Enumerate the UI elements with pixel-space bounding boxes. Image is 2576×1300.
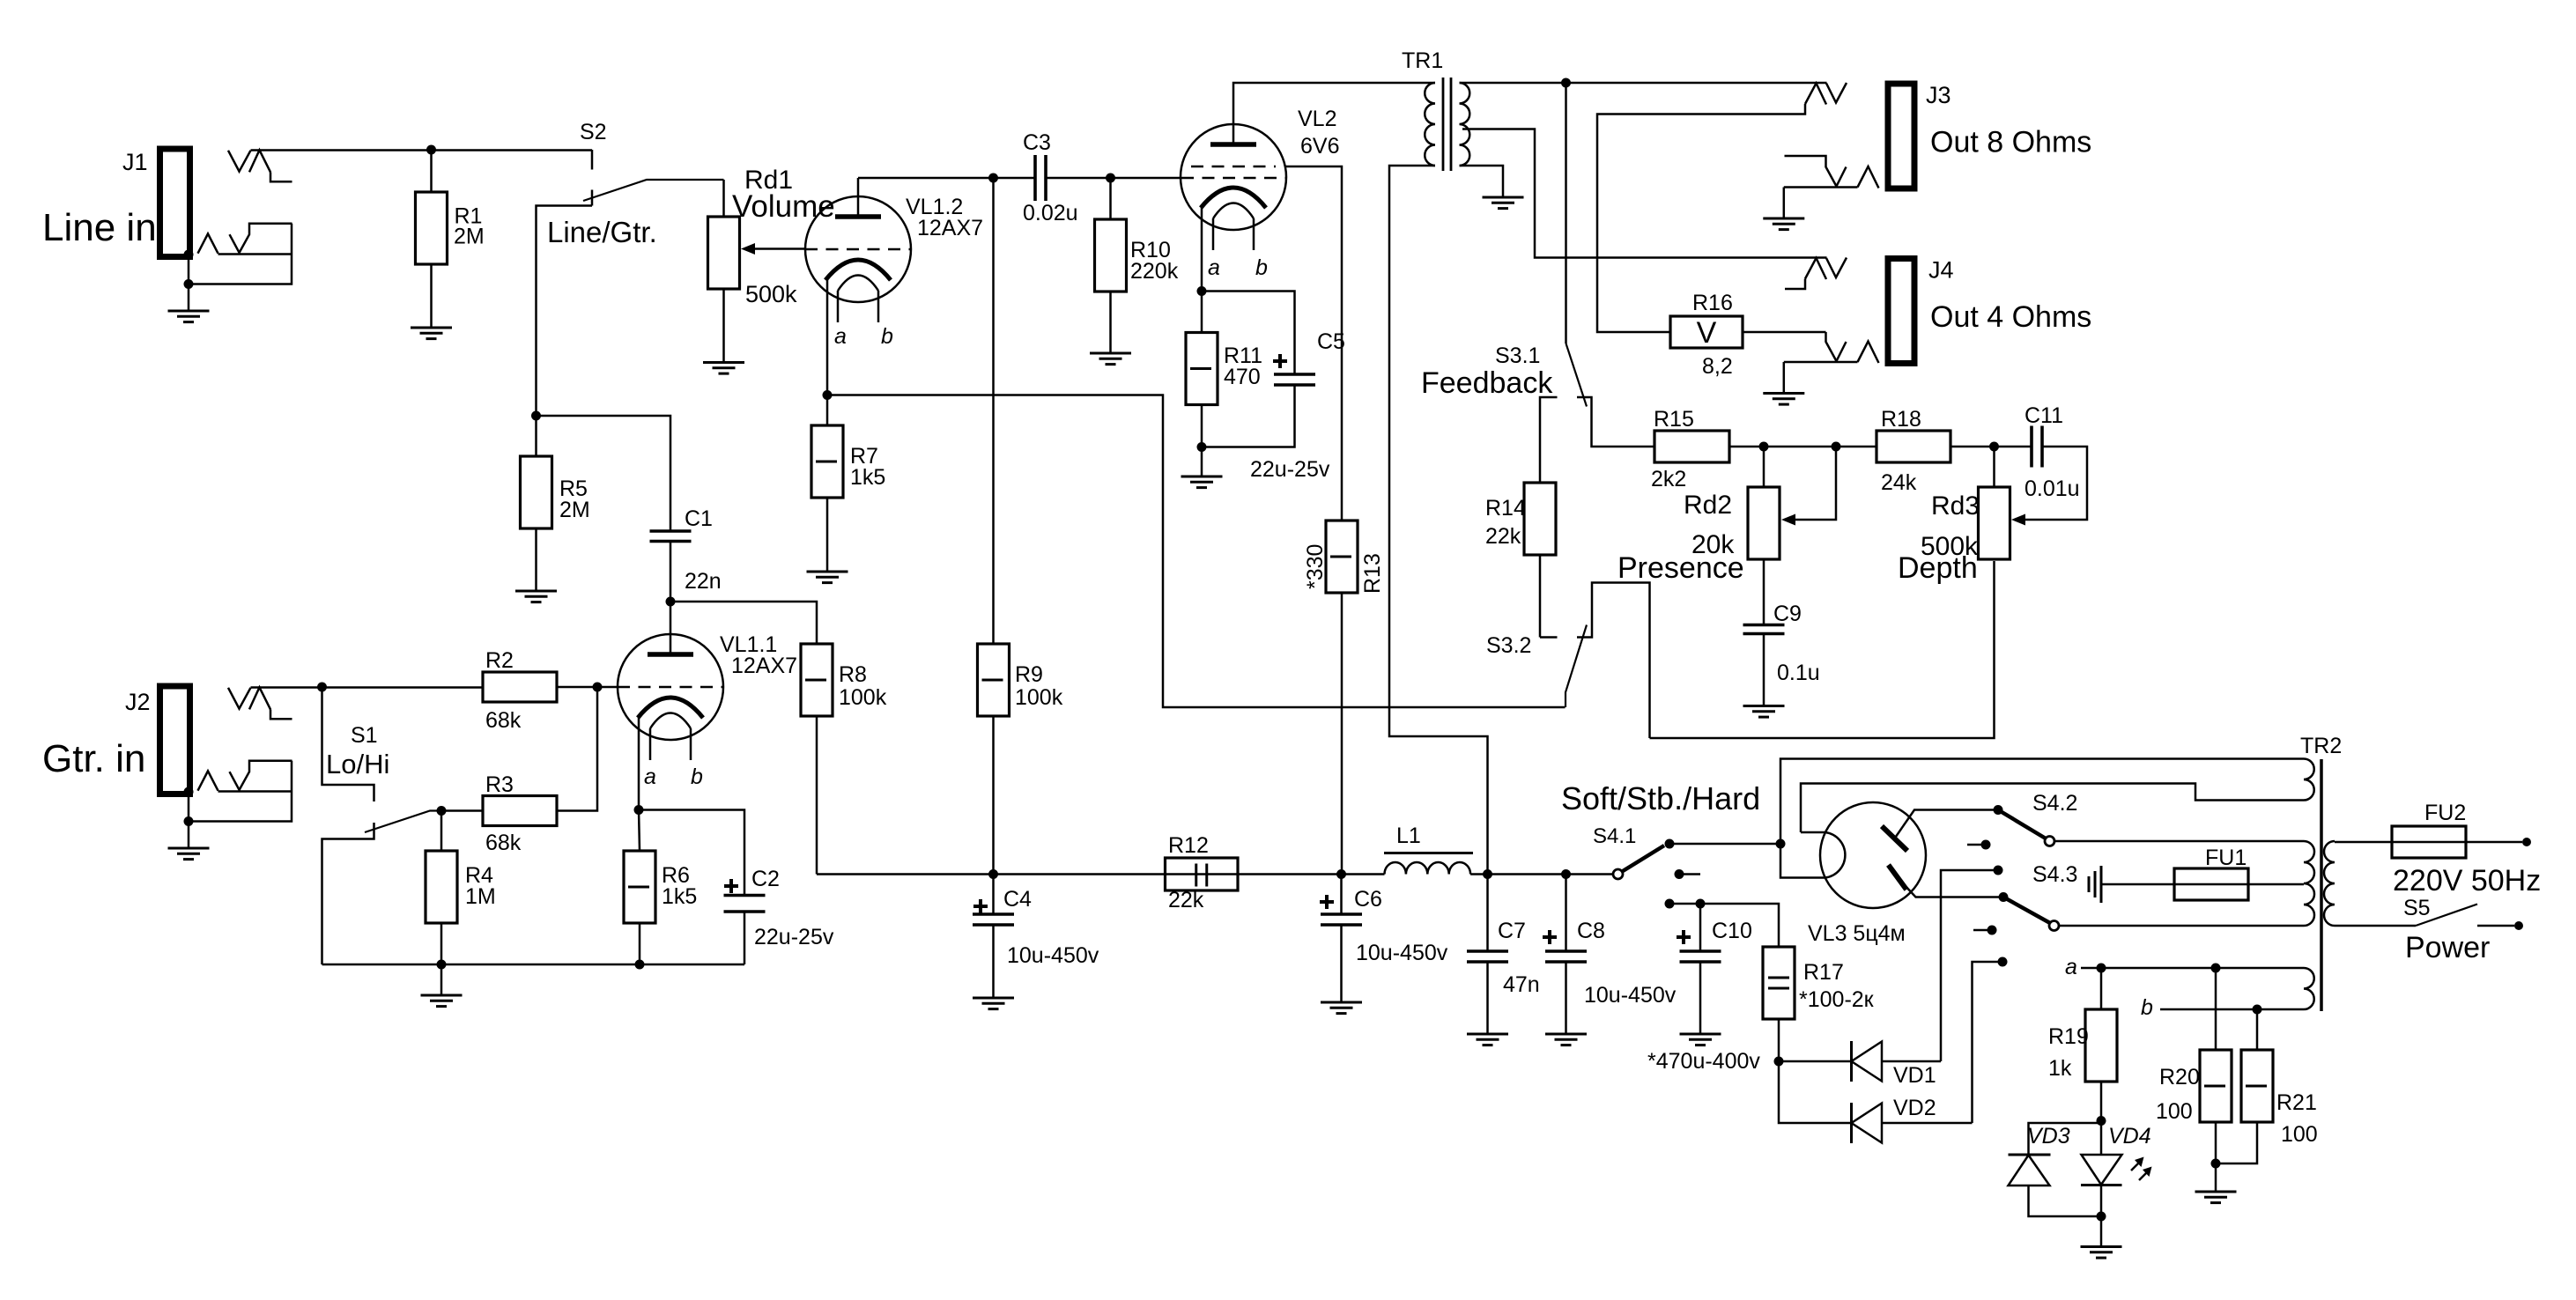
wire R12 to C6 node xyxy=(1238,873,1385,875)
svg-text:C6: C6 xyxy=(1354,887,1382,912)
wire R5 top stem xyxy=(535,416,537,456)
svg-text:1M: 1M xyxy=(465,884,496,909)
junction R4/ground bus xyxy=(437,960,447,970)
switch S2 arm xyxy=(583,180,724,201)
capacitor C4 xyxy=(973,914,1014,925)
svg-text:10u-450v: 10u-450v xyxy=(1356,941,1448,965)
J1 normalling return wire xyxy=(190,224,292,284)
svg-text:R17: R17 xyxy=(1803,960,1844,985)
resistor R8 xyxy=(801,644,833,716)
wire S3.2 to Rd3 bottom (depth return) xyxy=(1650,561,1995,738)
tube VL1.1 cathode xyxy=(638,698,703,718)
switch S1 upper contact xyxy=(322,687,374,801)
connector J4 (Out 4 Ohms jack) xyxy=(1888,259,1914,364)
wire J1 tip to R1/S2 node xyxy=(251,149,593,151)
svg-text:R8: R8 xyxy=(839,662,867,687)
tube VL2 anode (plate) xyxy=(1210,142,1256,147)
junction J1 tip node / R1 xyxy=(426,145,436,155)
switch S3.1 arm xyxy=(1566,343,1588,407)
tube VL1.2 grid xyxy=(805,248,911,251)
polarity + of C10 xyxy=(1677,930,1691,944)
switch S5 arm xyxy=(2416,905,2477,927)
junction C8 node xyxy=(1561,869,1571,879)
resistor R3 xyxy=(483,796,557,826)
resistor R2 xyxy=(483,672,557,702)
capacitor C8 xyxy=(1545,951,1587,962)
ground at C4 xyxy=(973,998,1014,1009)
wire VL2 cathode lead xyxy=(1201,206,1203,292)
svg-text:100k: 100k xyxy=(839,685,887,710)
svg-text:VD1: VD1 xyxy=(1893,1063,1936,1088)
J4 sleeve wire xyxy=(1784,361,1858,364)
J2 normalling return wire xyxy=(190,761,292,822)
wire C7 bottom to ground xyxy=(1486,962,1489,1034)
J1 sleeve wire xyxy=(218,253,292,255)
switch S4.2 standby stub xyxy=(1967,844,1981,846)
tube VL1.2 anode (plate) xyxy=(835,214,881,219)
ground at R10 xyxy=(1090,353,1131,365)
wire feedback return from VL1.2 cathode xyxy=(827,395,1566,708)
tube VL2 heater pin b xyxy=(1253,218,1255,250)
svg-text:a: a xyxy=(2065,955,2077,979)
wire R1 bottom stem xyxy=(430,264,433,328)
wire C1 bottom to VL1.1 plate node xyxy=(670,542,672,602)
svg-text:12AX7: 12AX7 xyxy=(731,654,797,678)
wire S4.3 pivot to TR2 HV bottom xyxy=(2059,925,2304,927)
J4 tip fixed contact xyxy=(1826,258,1847,278)
tube VL2 heater pin a xyxy=(1212,218,1215,250)
wire cathode ground bus xyxy=(322,964,745,966)
svg-text:VL3 5ц4м: VL3 5ц4м xyxy=(1808,921,1906,946)
capacitor C1 xyxy=(650,531,692,542)
switch S3.2 arm xyxy=(1566,625,1587,708)
svg-text:1k5: 1k5 xyxy=(662,884,697,909)
svg-text:Depth: Depth xyxy=(1898,551,1978,585)
switch S2 upper contact stub xyxy=(591,150,594,170)
wire R17 bottom xyxy=(1778,1019,1780,1061)
svg-text:22n: 22n xyxy=(685,569,722,594)
svg-text:C2: C2 xyxy=(751,867,780,891)
terminal mains line xyxy=(2522,838,2531,846)
transformer TR1 secondary winding xyxy=(1460,83,1470,166)
svg-text:C5: C5 xyxy=(1317,329,1345,354)
capacitor C10 xyxy=(1680,951,1721,962)
resistor R19 xyxy=(2085,1009,2117,1082)
diode VD2 xyxy=(1852,1103,1883,1143)
svg-text:Power: Power xyxy=(2405,931,2490,964)
wire S4.1 hard throw to R17 xyxy=(1669,904,1779,947)
wire S4.2 hard throw to VD1 xyxy=(1941,870,1998,1061)
junction VL1.2 plate / R9 / C3 xyxy=(988,174,998,183)
junction node b / R21 xyxy=(2253,1005,2262,1015)
svg-text:Rd3: Rd3 xyxy=(1931,491,1980,521)
capacitor C2 xyxy=(724,896,766,912)
junction S4.3 hard throw xyxy=(1998,957,2008,967)
wire R10 top stem xyxy=(1109,178,1112,219)
svg-text:Rd2: Rd2 xyxy=(1684,491,1732,520)
switch S2 lower rail xyxy=(537,206,593,417)
ground at R1 xyxy=(411,328,452,339)
J3 sleeve wire xyxy=(1784,186,1858,188)
transformer TR1 core xyxy=(1442,78,1445,171)
wire Rd1 wiper to VL1.2 grid xyxy=(755,247,805,250)
svg-text:500k: 500k xyxy=(745,281,797,307)
polarity + of C2 xyxy=(724,879,738,893)
wire VL1.1 plate stem xyxy=(670,602,672,654)
wire R6 top stem xyxy=(639,810,640,852)
svg-text:S5: S5 xyxy=(2403,896,2431,920)
tube VL1.2 envelope xyxy=(805,196,911,302)
wire C8 top stem xyxy=(1565,875,1567,952)
tube VL3 anode 2 xyxy=(1889,865,1907,890)
svg-text:2k2: 2k2 xyxy=(1651,467,1686,491)
J3 tip fixed contact xyxy=(1826,83,1847,103)
wire VD2 to S4.3 xyxy=(1882,1122,1973,1125)
wire chassis to FU1 to TR2 HV center tap xyxy=(2101,883,2304,886)
junction S4.2 hard throw xyxy=(1994,866,2003,875)
wire C6 top stem xyxy=(1340,875,1343,915)
J2 tip contact tail stub xyxy=(270,709,292,719)
wire S5 to mains terminal xyxy=(2477,925,2514,927)
svg-text:22u-25v: 22u-25v xyxy=(1250,457,1330,482)
J1 ring contact wire xyxy=(240,224,292,253)
switch S3.2 left throw stub xyxy=(1540,636,1558,639)
wire Rd1 bottom stem xyxy=(722,289,725,363)
svg-text:*330: *330 xyxy=(1303,544,1328,589)
wire R11 top stem xyxy=(1201,292,1203,333)
wire R6 bottom stem xyxy=(639,923,641,964)
svg-text:470: 470 xyxy=(1224,365,1261,389)
J1 tip spring contact xyxy=(249,150,270,172)
svg-text:Line/Gtr.: Line/Gtr. xyxy=(547,216,657,248)
resistor R13 xyxy=(1326,521,1358,593)
junction node a / R20 xyxy=(2211,964,2221,973)
transformer TR2 primary winding xyxy=(2324,841,2335,926)
svg-text:Feedback: Feedback xyxy=(1421,366,1553,400)
J1 tip contact tail stub xyxy=(270,172,292,181)
potentiometer Rd2 xyxy=(1748,487,1780,559)
svg-text:FU1: FU1 xyxy=(2205,846,2247,870)
J3 tip switching contact xyxy=(1805,84,1826,105)
J2 tip spring contact xyxy=(249,687,270,709)
tube VL1.2 heater pin b xyxy=(877,291,880,322)
ground at VD3/VD4 xyxy=(2081,1247,2122,1259)
fuse FU1 xyxy=(2174,868,2248,900)
svg-text:a: a xyxy=(834,324,847,349)
wire S4.1 to VL3 node xyxy=(1669,843,1780,846)
wire C4 top stem xyxy=(992,875,995,915)
junction TR1 secondary / feedback takeoff xyxy=(1561,78,1571,88)
capacitor C5 xyxy=(1274,374,1315,385)
wire TR1 secondary top to J3 xyxy=(1460,82,1827,85)
svg-text:Out 4 Ohms: Out 4 Ohms xyxy=(1930,300,2091,334)
junction S4.3 soft throw xyxy=(1999,892,2009,902)
wire TR1 secondary bottom to ground xyxy=(1460,166,1504,197)
wire FU2 to mains terminal xyxy=(2466,841,2522,844)
ground at C6 xyxy=(1321,1002,1362,1014)
switch S3.1 right throw to R15 xyxy=(1577,397,1654,447)
transformer TR2 5V winding xyxy=(2304,759,2314,801)
svg-text:b: b xyxy=(881,324,893,349)
svg-text:TR1: TR1 xyxy=(1402,48,1443,73)
ground at C8 xyxy=(1545,1034,1587,1045)
wire VL1.1 cathode lead xyxy=(638,716,640,810)
wire VL3 anode 1 lead xyxy=(1895,810,1999,839)
svg-text:VD4: VD4 xyxy=(2108,1124,2151,1149)
tube VL1.1 heater xyxy=(650,713,691,729)
wire C7 top stem xyxy=(1486,875,1489,952)
wire TR2 primary bottom to S5 xyxy=(2335,925,2416,927)
wire node to VD2 xyxy=(1779,1061,1850,1123)
wire R10 bottom stem xyxy=(1109,292,1112,353)
transformer TR1 primary winding xyxy=(1425,83,1435,166)
switch S4.3 standby stub xyxy=(1973,929,1988,932)
diode VD4 (LED) xyxy=(2081,1155,2122,1186)
J2 ring contact wire xyxy=(240,761,292,790)
capacitor C6 xyxy=(1321,914,1362,925)
resistor R20 xyxy=(2200,1050,2232,1122)
svg-text:R2: R2 xyxy=(485,648,514,673)
wire VD3 bottom xyxy=(2029,1186,2102,1216)
svg-text:VD3: VD3 xyxy=(2027,1124,2070,1149)
switch S4.3 pivot xyxy=(2049,921,2059,931)
svg-text:C9: C9 xyxy=(1773,602,1802,626)
svg-text:S3.2: S3.2 xyxy=(1486,633,1531,658)
wire R5 bottom stem xyxy=(535,528,537,591)
wire R13 bottom to B+ rail xyxy=(1341,593,1344,875)
switch S2 lower contact stub xyxy=(591,190,594,206)
svg-text:100: 100 xyxy=(2156,1099,2193,1124)
wire R18 to C11 xyxy=(1951,446,2032,448)
wire through FU2 xyxy=(2392,841,2466,844)
tube VL3 envelope xyxy=(1820,802,1926,908)
ground at C10 xyxy=(1680,1034,1721,1045)
svg-text:Soft/Stb./Hard: Soft/Stb./Hard xyxy=(1561,780,1760,816)
tube VL2 heater xyxy=(1213,203,1254,219)
wire node to C1 xyxy=(537,416,671,531)
polarity + of C5 xyxy=(1273,354,1287,368)
inductor L1 xyxy=(1385,862,1471,875)
svg-text:68k: 68k xyxy=(485,708,522,733)
tube VL2 cathode xyxy=(1201,188,1266,208)
junction J1 return/ground xyxy=(184,279,194,289)
wire VL2 plate stem to TR1 xyxy=(1233,83,1435,144)
ground at input bus xyxy=(421,995,463,1007)
wire J3 sleeve to ground xyxy=(1783,188,1786,219)
wire R9 bottom to B+ rail xyxy=(992,716,995,875)
wire to ground xyxy=(2100,1216,2103,1247)
junction VL2 cathode / R11 / C5 xyxy=(1197,286,1207,296)
wire R15 to R18 xyxy=(1729,446,1876,448)
J1 sleeve terminal wire to ground xyxy=(188,257,190,312)
J3 ring contact arm xyxy=(1837,167,1847,187)
svg-text:24k: 24k xyxy=(1881,470,1917,495)
svg-text:R14: R14 xyxy=(1485,496,1526,521)
svg-text:C1: C1 xyxy=(685,506,713,531)
resistor R10 xyxy=(1095,219,1127,292)
wire R2 to VL1.1 grid xyxy=(557,686,618,689)
svg-text:S1: S1 xyxy=(351,723,378,748)
transformer TR2 HV winding xyxy=(2304,841,2314,926)
junction VL3 filament node xyxy=(1776,839,1786,849)
svg-text:12AX7: 12AX7 xyxy=(917,216,983,240)
svg-text:Lo/Hi: Lo/Hi xyxy=(326,749,389,779)
switch S3.1 left throw to R14 xyxy=(1540,397,1558,483)
wire R19 top stem xyxy=(2100,968,2103,1009)
wire R4 top stem xyxy=(440,811,443,852)
wire C10 bottom to ground xyxy=(1699,962,1702,1034)
J3 ring contact wire xyxy=(1785,156,1837,187)
wire node to VD3 xyxy=(2029,1121,2102,1156)
wire VL1.2 cathode lead xyxy=(826,278,829,395)
ground at J2 xyxy=(168,848,210,860)
wire R7 top stem xyxy=(826,395,829,426)
wire L1 to C7 node xyxy=(1470,873,1566,875)
junction S4.2 soft throw xyxy=(1994,805,2003,815)
Rd2 wiper arrow xyxy=(1781,514,1795,526)
svg-text:R9: R9 xyxy=(1015,662,1043,687)
resistor R17 power marks xyxy=(1768,977,1789,979)
capacitor C7 xyxy=(1467,951,1508,962)
svg-text:1k: 1k xyxy=(2048,1056,2072,1081)
junction S2/R5/C1 node xyxy=(531,411,541,421)
svg-text:R12: R12 xyxy=(1168,833,1209,858)
junction R6/C2 bottom xyxy=(635,960,645,970)
ground at C7 xyxy=(1467,1034,1508,1045)
junction B+ rail / C4 xyxy=(988,869,998,879)
wire J4 sleeve to ground xyxy=(1783,362,1786,394)
svg-text:Out 8 Ohms: Out 8 Ohms xyxy=(1930,126,2091,159)
tube VL1.2 heater xyxy=(838,276,878,292)
switch S4.1 pivot xyxy=(1613,869,1623,879)
ground at Rd1 xyxy=(703,363,744,374)
tube VL1.1 grid xyxy=(618,686,723,689)
wire C2 bottom xyxy=(744,912,746,964)
ground at C9 xyxy=(1743,706,1785,718)
svg-text:*470u-400v: *470u-400v xyxy=(1647,1049,1760,1074)
wire R14 bottom to S3.2 xyxy=(1539,555,1542,638)
wire R8 bottom to B+ rail xyxy=(816,716,818,875)
svg-text:C11: C11 xyxy=(2025,403,2063,428)
J2 sleeve contact spring xyxy=(198,771,218,790)
wire bus to ground xyxy=(440,964,443,995)
junction S4.1 standby stub xyxy=(1675,869,1684,879)
fuse FU2 xyxy=(2392,826,2466,858)
wire VD1 to S4.3 xyxy=(1882,1060,1941,1063)
resistor R15 xyxy=(1654,431,1729,462)
junction S4.1 hard throw xyxy=(1665,899,1675,909)
wire VL3 filament top stub xyxy=(1801,831,1825,834)
svg-text:C8: C8 xyxy=(1577,919,1605,943)
J1 sleeve contact spring xyxy=(198,233,218,253)
junction S4.1 soft throw xyxy=(1665,839,1675,849)
svg-text:S4.1: S4.1 xyxy=(1593,824,1636,848)
switch S4.3 arm xyxy=(2003,897,2050,924)
svg-text:VL2: VL2 xyxy=(1298,107,1336,131)
svg-text:22k: 22k xyxy=(1168,888,1204,912)
wire C9 bottom to ground xyxy=(1763,634,1765,706)
wire Rd3 top stem xyxy=(1993,447,1995,487)
wire cathode to C2 xyxy=(639,810,744,896)
ground at J3 xyxy=(1763,218,1804,230)
wire TR2 primary top to FU2 xyxy=(2335,841,2392,844)
wire VL2 screen to R13 xyxy=(1285,166,1342,521)
J4 tip switching contact xyxy=(1805,258,1826,279)
wire C6 bottom to ground xyxy=(1340,925,1343,1002)
resistor R5 xyxy=(521,456,552,528)
inductor L1 core bar xyxy=(1384,852,1473,854)
J4 ring contact wire xyxy=(1826,332,1837,361)
wire S4.3 hard throw to VD2 xyxy=(1973,962,2003,1123)
svg-text:R15: R15 xyxy=(1654,407,1694,432)
tube VL1.1 heater pin b xyxy=(690,728,692,760)
junction R17/VD1/VD2 node xyxy=(1774,1057,1784,1067)
capacitor C11 xyxy=(2032,426,2042,468)
svg-text:b: b xyxy=(1255,255,1268,280)
svg-text:C10: C10 xyxy=(1712,919,1752,943)
wire TR1 primary bottom to B+ xyxy=(1389,166,1488,875)
terminal mains neutral xyxy=(2514,921,2523,930)
svg-text:J1: J1 xyxy=(122,149,148,175)
resistor R16 xyxy=(1670,316,1743,348)
wire feedback from TR1 to S3.1 xyxy=(1565,83,1567,343)
resistor R17 xyxy=(1763,947,1795,1019)
svg-text:R18: R18 xyxy=(1881,407,1921,432)
resistor R14 xyxy=(1524,483,1556,555)
svg-text:R13: R13 xyxy=(1360,553,1385,594)
tube VL1.2 cathode xyxy=(825,260,891,280)
svg-text:2M: 2M xyxy=(559,498,590,522)
junction R18/Rd3 xyxy=(1989,442,1999,452)
svg-text:47n: 47n xyxy=(1503,972,1540,997)
switch S4.2 arm xyxy=(1998,810,2046,839)
J2 ring contact arm xyxy=(230,772,241,791)
wire Rd2 bottom to C9 xyxy=(1763,559,1765,625)
wire R4 bottom stem xyxy=(440,923,443,964)
junction Rd2 wiper tap xyxy=(1832,442,1841,452)
junction S1 arm / R3 / R4 xyxy=(437,806,447,816)
tube VL2 envelope xyxy=(1181,124,1286,230)
chassis ground at FU1 xyxy=(2089,866,2101,903)
resistor R21 xyxy=(2241,1050,2273,1122)
svg-text:b: b xyxy=(691,764,703,789)
wire node to VD4 xyxy=(2100,1121,2103,1156)
junction S4.3 standby stub xyxy=(1988,926,1997,935)
wire R7 bottom stem xyxy=(826,498,829,572)
transformer TR2 6.3V winding xyxy=(2304,968,2314,1009)
resistor R1 xyxy=(416,192,448,264)
connector J3 (Out 8 Ohms jack) xyxy=(1888,84,1914,188)
junction J2 tip node / S1 xyxy=(317,683,327,692)
wire C3 to VL2 grid xyxy=(1046,177,1181,180)
svg-text:10u-450v: 10u-450v xyxy=(1584,983,1677,1008)
svg-text:b: b xyxy=(2141,995,2153,1020)
svg-text:J3: J3 xyxy=(1926,82,1951,108)
junction VL1.1 cathode / R6 / C2 xyxy=(634,805,644,815)
svg-text:S4.2: S4.2 xyxy=(2032,791,2077,816)
svg-text:TR2: TR2 xyxy=(2300,734,2342,758)
wire plate node to C3 xyxy=(858,177,1035,180)
wire to R3 xyxy=(441,809,483,812)
switch S1 lower contact xyxy=(322,823,374,964)
connector J1 (Line in jack) xyxy=(160,149,190,257)
wire J2 tip to R2 xyxy=(251,686,484,689)
resistor R6 xyxy=(624,851,655,923)
junction C10 tap xyxy=(1696,899,1706,909)
ground at R11 xyxy=(1181,476,1223,488)
tube VL3 filament xyxy=(1825,832,1845,878)
switch S4.1 standby stub xyxy=(1679,873,1700,875)
